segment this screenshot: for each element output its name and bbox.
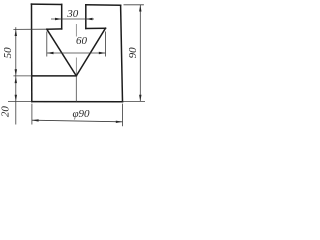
wire dim 60 ext right: [105, 32, 107, 57]
wire V slant left: [47, 29, 77, 76]
wire top edge left: [31, 3, 61, 5]
node arrow 90 down: [139, 95, 141, 102]
node arrow 30 left: [55, 18, 62, 20]
node arrow 50 down: [15, 69, 17, 76]
wire dim 90 bottom ext: [123, 100, 146, 102]
wire notch wall left: [61, 4, 63, 29]
node arrow 60 left: [47, 52, 54, 54]
svg-text:90: 90: [127, 47, 139, 59]
wire dim 50 top ext: [13, 28, 46, 30]
wire dim 30 line: [51, 18, 94, 20]
wire dim 50-20 vertical line: [15, 27, 17, 124]
svg-text:20: 20: [0, 106, 12, 118]
wire dim phi90 ext right: [122, 104, 124, 127]
node arrow 30 right: [86, 18, 93, 20]
node V apex vertical line: [75, 76, 77, 102]
wire dim 90 line right: [139, 5, 141, 102]
wire dim 50 bottom ext: [13, 75, 31, 77]
wire dim 20 bottom ext: [8, 101, 32, 103]
node arrow 90 up: [139, 5, 141, 12]
svg-text:60: 60: [76, 35, 88, 47]
node arrow 20 up: [15, 76, 17, 83]
wire bottom edge: [32, 101, 123, 103]
wire dim 60 ext left: [46, 32, 48, 57]
node arrow phi90 left: [32, 119, 39, 121]
wire dim phi90 ext left: [31, 104, 33, 125]
wire top edge right: [86, 4, 121, 7]
wire left edge: [31, 4, 33, 102]
node centerline: [75, 24, 77, 37]
wire notch wall right: [85, 5, 87, 29]
wire shoulder left: [47, 28, 62, 30]
node arrow 50 up: [15, 29, 17, 36]
node arrow 20 down: [15, 95, 17, 102]
wire right edge: [121, 5, 123, 101]
node arrow phi90 right: [116, 121, 123, 123]
svg-text:φ90: φ90: [72, 108, 90, 120]
wire dim phi90 line: [32, 120, 123, 122]
wire V slant right: [76, 28, 105, 76]
wire shoulder right: [86, 27, 106, 29]
svg-text:50: 50: [2, 47, 14, 59]
node arrow 60 right: [99, 52, 106, 54]
wire internal step line: [32, 75, 77, 77]
wire dim 60 line: [47, 52, 106, 54]
wire dim 90 top ext: [124, 4, 144, 6]
svg-text:30: 30: [66, 8, 79, 20]
